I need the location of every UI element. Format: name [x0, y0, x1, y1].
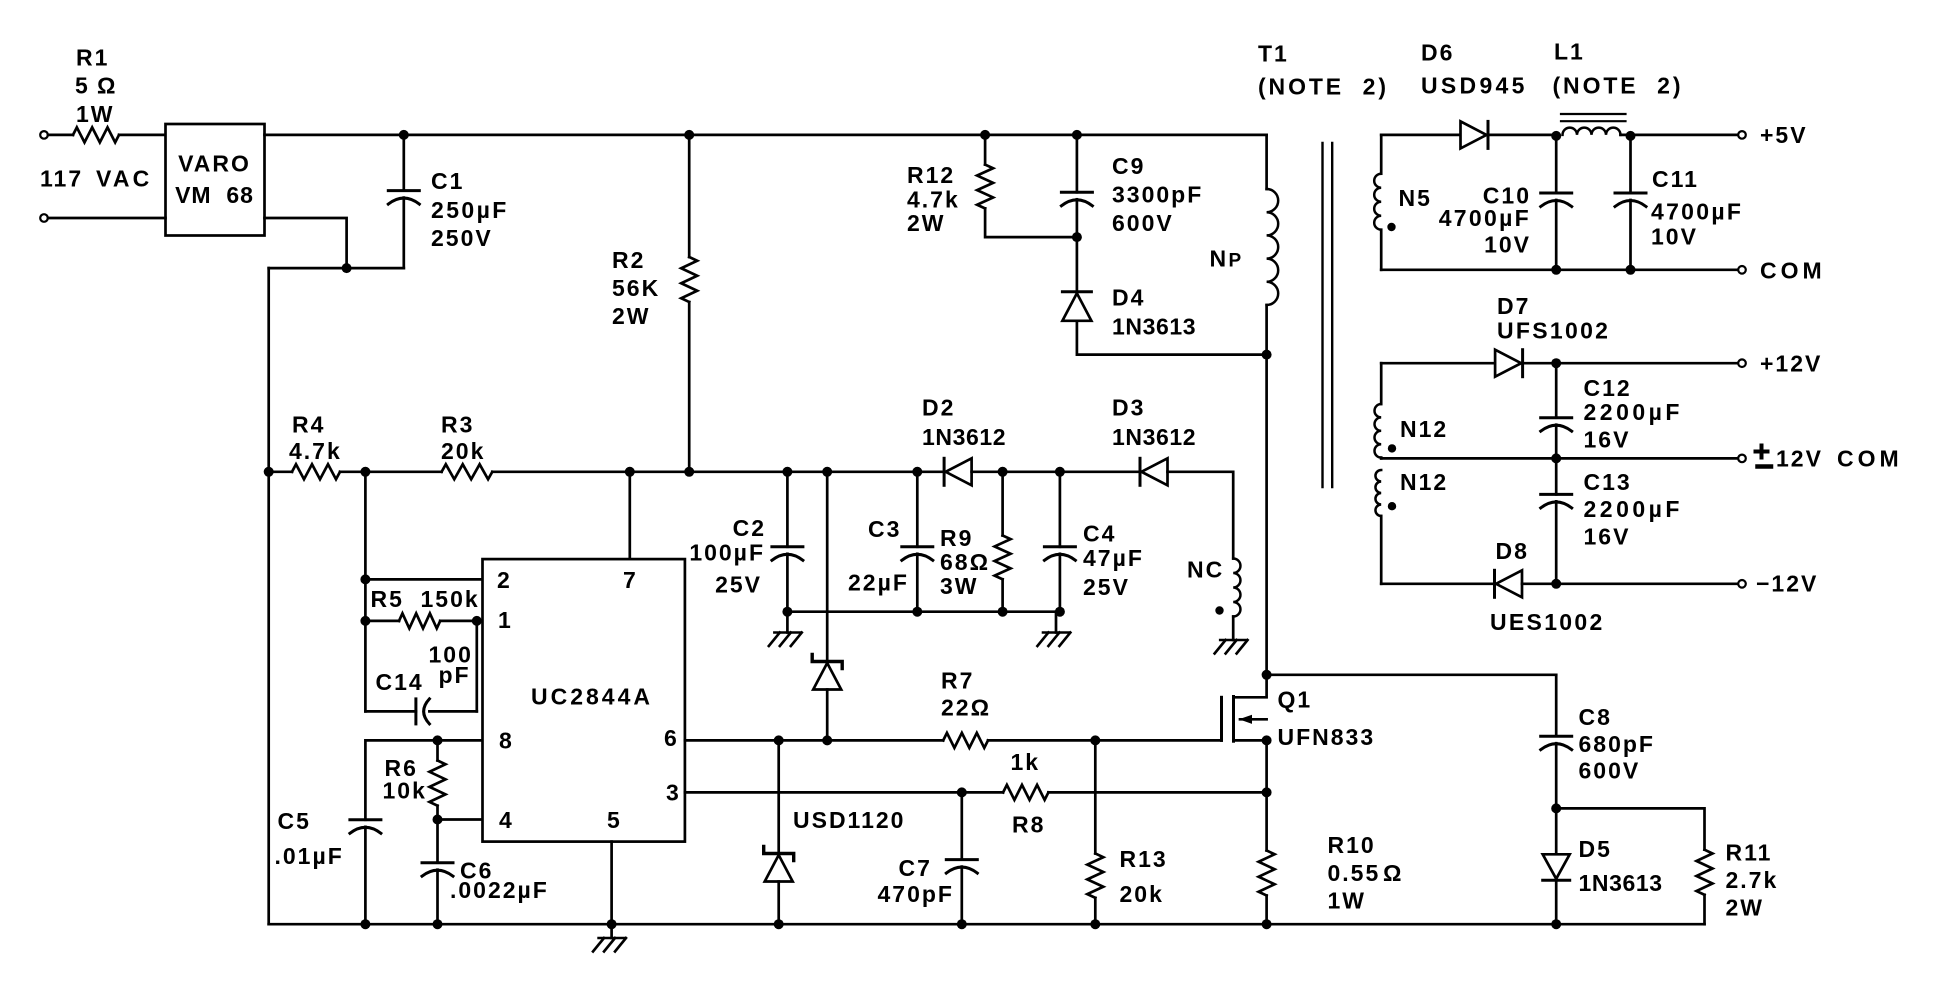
- wire: 12V COM rail: [1381, 457, 1738, 460]
- svg-text:20k: 20k: [1120, 881, 1164, 907]
- winding NP (T1 primary): [1265, 135, 1268, 189]
- svg-text:C12: C12: [1584, 375, 1632, 401]
- svg-text:25V: 25V: [1083, 574, 1130, 600]
- svg-text:C14: C14: [376, 669, 424, 695]
- svg-text:600V: 600V: [1112, 210, 1174, 236]
- junction: VARO out / C1 bottom: [342, 263, 352, 273]
- terminal +5V: [1738, 131, 1746, 139]
- resistor R4: [292, 464, 340, 479]
- wire: COM rail: [1381, 268, 1738, 271]
- svg-text:(NOTE 2): (NOTE 2): [1258, 74, 1389, 100]
- polarity dot (N12 upper): [1388, 444, 1396, 452]
- svg-text:4.7k: 4.7k: [907, 187, 960, 213]
- svg-text:6: 6: [664, 725, 679, 751]
- svg-text:C8: C8: [1579, 704, 1612, 730]
- svg-text:1W: 1W: [76, 101, 115, 127]
- junction: R2 bottom: [684, 467, 694, 477]
- svg-text:D3: D3: [1112, 395, 1145, 421]
- wire: left rail: [267, 268, 270, 924]
- svg-text:20k: 20k: [441, 438, 485, 464]
- wire: R1 to VARO: [119, 134, 166, 137]
- svg-text:25V: 25V: [715, 572, 762, 598]
- junction: R8 / Q1 source: [1262, 787, 1272, 797]
- svg-text:N5: N5: [1399, 185, 1432, 211]
- svg-text:C5: C5: [278, 808, 311, 834]
- svg-text:COM: COM: [1760, 258, 1826, 284]
- svg-text:T1: T1: [1258, 41, 1289, 67]
- svg-text:R13: R13: [1120, 846, 1168, 872]
- winding N12 lower: [1375, 470, 1381, 516]
- svg-text:R2: R2: [612, 247, 645, 273]
- capacitor C3 22uF: [916, 472, 919, 547]
- svg-text:250V: 250V: [431, 225, 493, 251]
- svg-text:10k: 10k: [383, 778, 427, 804]
- svg-text:+5V: +5V: [1760, 122, 1808, 148]
- capacitor C8 680pF: [1267, 673, 1557, 676]
- svg-text:(NOTE 2): (NOTE 2): [1553, 73, 1684, 99]
- svg-text:R3: R3: [441, 412, 474, 438]
- svg-text:1N3612: 1N3612: [922, 424, 1006, 450]
- junction: R4/R3/pin2 node: [360, 467, 370, 477]
- svg-text:L1: L1: [1554, 39, 1585, 65]
- svg-text:1N3612: 1N3612: [1112, 424, 1196, 450]
- svg-text:USD945: USD945: [1421, 73, 1528, 99]
- resistor R7 22ohm: [943, 733, 988, 748]
- svg-text:Ω: Ω: [1383, 860, 1403, 886]
- resistor R13 20k: [1094, 740, 1097, 853]
- polarity dot (NC): [1215, 606, 1223, 614]
- svg-text:C13: C13: [1584, 469, 1632, 495]
- junction: zener top: [822, 467, 832, 477]
- junction: R6 bottom / pin 4: [433, 815, 443, 825]
- svg-text:5: 5: [75, 73, 90, 99]
- svg-text:10V: 10V: [1484, 232, 1531, 258]
- wire: pin 4: [438, 818, 483, 821]
- junction: drain / C8: [1262, 670, 1272, 680]
- resistor R6 10k: [436, 740, 439, 760]
- svg-text:R9: R9: [940, 525, 973, 551]
- svg-text:C1: C1: [431, 168, 464, 194]
- transformer T1 core: [1321, 143, 1323, 487]
- junction: D7 / C12: [1551, 358, 1561, 368]
- svg-text:R10: R10: [1328, 832, 1376, 858]
- inductor L1 core: [1561, 113, 1626, 115]
- svg-text:R11: R11: [1726, 840, 1773, 866]
- svg-text:C4: C4: [1083, 521, 1116, 547]
- resistor R8 1k: [1003, 785, 1048, 800]
- svg-text:C9: C9: [1112, 153, 1145, 179]
- svg-text:Q1: Q1: [1278, 687, 1313, 713]
- wire: NP bottom to Q1 drain: [1265, 355, 1268, 675]
- resistor R11 2.7k: [1556, 808, 1704, 849]
- wire: pin 2: [360, 574, 370, 584]
- svg-text:1k: 1k: [1011, 749, 1041, 775]
- svg-text:3W: 3W: [940, 573, 979, 599]
- svg-text:COM: COM: [1837, 446, 1903, 472]
- junction: USD1120 top: [774, 735, 784, 745]
- wire: VARO top output to C1/top bus: [265, 134, 1267, 137]
- svg-text:+12V: +12V: [1760, 351, 1822, 377]
- svg-text:600V: 600V: [1579, 758, 1641, 784]
- svg-text:−12V: −12V: [1756, 571, 1818, 597]
- capacitor C2 100uF: [786, 472, 789, 547]
- svg-text:.01µF: .01µF: [275, 843, 344, 869]
- wire: pin 8: [365, 740, 482, 819]
- capacitor C10 4700uF: [1555, 135, 1558, 193]
- ground (pin 5): [610, 924, 613, 938]
- svg-text:UC2844A: UC2844A: [531, 684, 653, 710]
- svg-text:4: 4: [499, 807, 514, 833]
- svg-text:0.55: 0.55: [1328, 860, 1381, 886]
- capacitor C12 2200uF: [1555, 363, 1558, 418]
- svg-text:UES1002: UES1002: [1490, 609, 1605, 635]
- svg-text:68Ω: 68Ω: [940, 549, 990, 575]
- svg-text:1W: 1W: [1328, 888, 1367, 914]
- svg-text:100µF: 100µF: [689, 540, 765, 566]
- svg-text:16V: 16V: [1584, 524, 1631, 550]
- svg-text:R1: R1: [76, 45, 109, 71]
- svg-text:R7: R7: [941, 668, 974, 694]
- junction: zener bottom: [822, 735, 832, 745]
- svg-text:4.7k: 4.7k: [289, 438, 342, 464]
- junction: C12/C13: [1551, 453, 1561, 463]
- svg-text:470pF: 470pF: [878, 881, 954, 907]
- junction: top bus / C1: [399, 130, 409, 140]
- svg-text:250µF: 250µF: [431, 197, 509, 223]
- winding NC (T1 aux): [1233, 559, 1240, 617]
- svg-text:16V: 16V: [1584, 427, 1631, 453]
- svg-text:1: 1: [498, 607, 513, 633]
- terminal: AC input bottom: [40, 214, 48, 222]
- svg-text:pF: pF: [439, 662, 471, 688]
- terminal: AC input top: [40, 131, 48, 139]
- svg-text:N12: N12: [1400, 416, 1448, 442]
- winding N12 upper (T1 secondary 12V): [1380, 363, 1383, 404]
- svg-text:C3: C3: [868, 516, 901, 542]
- svg-text:1N3613: 1N3613: [1112, 314, 1196, 340]
- wire: pin 3 current sense: [685, 791, 1003, 794]
- svg-text:D7: D7: [1497, 293, 1530, 319]
- svg-text:C7: C7: [899, 855, 932, 881]
- op-amp/PWM IC U1 UC2844A: [483, 559, 685, 842]
- svg-text:22µF: 22µF: [848, 570, 909, 596]
- svg-text:2W: 2W: [612, 303, 651, 329]
- junction: pin7 riser: [625, 467, 635, 477]
- capacitor C11 4700uF: [1629, 135, 1632, 193]
- wire: D3 to NC winding: [1168, 472, 1234, 559]
- ground (under C2): [786, 612, 789, 633]
- capacitor C4 47uF: [1059, 472, 1062, 547]
- junction: R9 top: [998, 467, 1008, 477]
- svg-text:12V: 12V: [1776, 446, 1823, 472]
- svg-text:2200µF: 2200µF: [1584, 496, 1683, 522]
- wire: mid bus to pin 7: [628, 472, 631, 559]
- svg-text:R5: R5: [371, 586, 404, 612]
- diode D4 1N3613: [1076, 237, 1079, 292]
- svg-text:47µF: 47µF: [1083, 545, 1144, 571]
- wire: input bottom to VARO: [48, 217, 166, 220]
- ground (NC): [1220, 639, 1246, 642]
- junction: C3 top: [912, 467, 922, 477]
- junction: L1 out / C11: [1626, 131, 1636, 141]
- svg-text:56K: 56K: [612, 275, 660, 301]
- wire: input to R1: [48, 134, 73, 137]
- junction: top bus / R2: [684, 130, 694, 140]
- zener diode USD1120: [777, 740, 780, 853]
- svg-text:2200µF: 2200µF: [1584, 399, 1683, 425]
- wire: VARO bottom output: [265, 218, 347, 268]
- junction: NP bottom / D4: [1262, 350, 1272, 360]
- svg-text:UFN833: UFN833: [1278, 724, 1376, 750]
- junction: C8 / D5 / R11: [1551, 803, 1561, 813]
- diode D3 1N3612: [1139, 458, 1142, 485]
- wire: pin 6 gate drive: [685, 739, 943, 742]
- capacitor C6 .0022uF: [436, 820, 439, 863]
- svg-text:UFS1002: UFS1002: [1497, 318, 1610, 344]
- svg-text:P: P: [1229, 251, 1244, 272]
- svg-text:2.7k: 2.7k: [1726, 867, 1779, 893]
- svg-text:5: 5: [607, 807, 622, 833]
- terminal +12V: [1738, 359, 1746, 367]
- svg-text:D6: D6: [1421, 40, 1454, 66]
- wire: C1 bottom rail: [269, 267, 404, 270]
- svg-text:4700µF: 4700µF: [1439, 205, 1531, 231]
- svg-text:8: 8: [499, 728, 514, 754]
- junction: C2 top: [782, 467, 792, 477]
- svg-text:VM 68: VM 68: [175, 182, 254, 208]
- capacitor C14 100pF: [365, 710, 416, 713]
- rectifier module VARO VM 68: [166, 124, 265, 236]
- svg-text:3300pF: 3300pF: [1112, 182, 1203, 208]
- svg-text:N12: N12: [1400, 469, 1448, 495]
- svg-text:C11: C11: [1652, 166, 1699, 192]
- svg-text:R8: R8: [1012, 812, 1045, 838]
- capacitor C13 2200uF: [1555, 458, 1558, 494]
- svg-text:NC: NC: [1187, 557, 1224, 583]
- junction: D8 / C13 / -12V: [1551, 579, 1561, 589]
- svg-text:.0022µF: .0022µF: [450, 877, 549, 903]
- resistor R3: [365, 470, 441, 473]
- junction: C7 top: [957, 787, 967, 797]
- junction: top bus / C9: [1072, 130, 1082, 140]
- diode D5 1N3613: [1555, 808, 1558, 854]
- capacitor C7 470pF: [960, 792, 963, 859]
- svg-text:7: 7: [623, 567, 638, 593]
- svg-text:N: N: [1210, 246, 1229, 272]
- wire: pin 5 to ground: [610, 842, 613, 925]
- terminal 12V COM: [1738, 455, 1746, 463]
- resistor R1: [73, 127, 119, 142]
- svg-text:680pF: 680pF: [1579, 731, 1655, 757]
- junction: source/body tie: [1262, 735, 1272, 745]
- zener diode (clamp): [826, 472, 829, 662]
- wire: feedback node column: [364, 472, 367, 712]
- svg-text:R12: R12: [907, 162, 955, 188]
- resistor R9 68ohm: [1001, 472, 1004, 536]
- svg-text:150k: 150k: [421, 586, 480, 612]
- wire: to +5V terminal: [1621, 134, 1739, 137]
- capacitor C5 .01uF: [350, 818, 381, 821]
- svg-text:VARO: VARO: [178, 151, 251, 177]
- terminal COM: [1738, 266, 1746, 274]
- svg-text:2: 2: [497, 567, 512, 593]
- svg-text:D8: D8: [1496, 538, 1529, 564]
- junction: R6 top: [433, 735, 443, 745]
- winding N5 (T1 secondary 5V): [1380, 135, 1383, 174]
- resistor R5 150k: [360, 616, 370, 626]
- wire: bottom bus (primary ground): [269, 923, 1705, 926]
- polarity dot (N5): [1387, 223, 1395, 231]
- svg-text:3: 3: [666, 780, 681, 806]
- svg-text:2W: 2W: [907, 210, 946, 236]
- junction: D6 out / C10 / L1: [1551, 131, 1561, 141]
- junction: C9 / R12 / D4: [1072, 232, 1082, 242]
- terminal -12V: [1738, 580, 1746, 588]
- resistor R10 0.55ohm: [1265, 792, 1268, 850]
- svg-text:4700µF: 4700µF: [1651, 199, 1743, 225]
- polarity dot (N12 lower): [1388, 502, 1396, 510]
- diode D2 1N3612: [943, 458, 946, 485]
- svg-text:2W: 2W: [1726, 895, 1765, 921]
- junction: top bus / R12: [980, 130, 990, 140]
- svg-text:C2: C2: [733, 515, 766, 541]
- svg-text:D5: D5: [1579, 836, 1612, 862]
- svg-text:Ω: Ω: [97, 73, 117, 99]
- svg-text:USD1120: USD1120: [793, 807, 905, 833]
- svg-text:22Ω: 22Ω: [941, 695, 991, 721]
- svg-text:D2: D2: [922, 395, 955, 421]
- svg-text:R4: R4: [292, 412, 325, 438]
- wire: C2/C3/R9/C4 ground rail: [787, 610, 1060, 613]
- ground (under C4): [1055, 612, 1058, 633]
- svg-text:117: 117: [40, 166, 83, 192]
- junction: C4 top: [1055, 467, 1065, 477]
- svg-text:1N3613: 1N3613: [1579, 870, 1663, 896]
- wire: mid bus (Vcc rail): [264, 467, 274, 477]
- svg-text:10V: 10V: [1651, 224, 1698, 250]
- junction: pin 1: [472, 616, 482, 626]
- svg-text:D4: D4: [1112, 285, 1145, 311]
- junction: R13 top: [1090, 735, 1100, 745]
- svg-text:VAC: VAC: [96, 166, 152, 192]
